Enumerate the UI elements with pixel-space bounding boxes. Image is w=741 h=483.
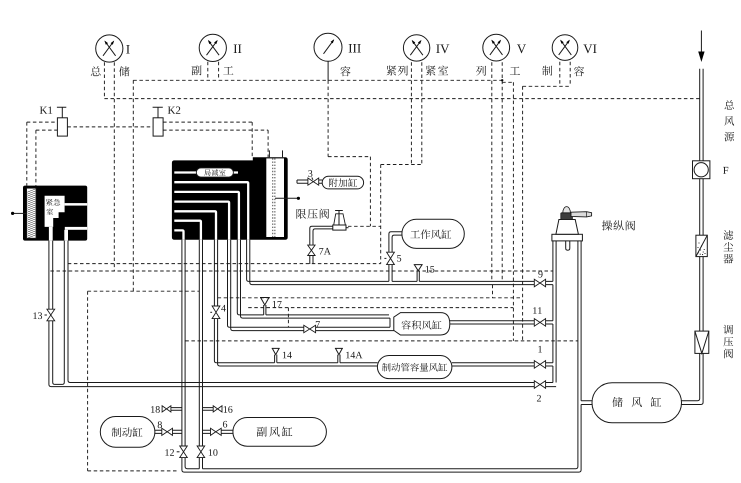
text 工作风缸 [410, 230, 420, 238]
supply arrow [698, 31, 704, 63]
gauge VI dashed drops [560, 62, 570, 87]
label 12 [165, 449, 174, 456]
top port stubs [269, 150, 282, 157]
pressure gauge III (single needle) [314, 33, 342, 61]
dashed bus y80 [133, 79, 502, 81]
emergency valve upper port slot [65, 203, 88, 206]
text 容积风缸 [401, 320, 410, 329]
text 紧急室 [46, 199, 60, 215]
capsule 制动缸 [100, 417, 155, 448]
valve 2 [534, 381, 545, 389]
channel L5 [174, 211, 216, 240]
pipe L3 (bottom line) [241, 240, 391, 318]
valve 12 [177, 446, 188, 458]
gauge IV dashed drops [411, 62, 421, 164]
gauge II labels 副/工 [192, 65, 234, 75]
label IV [436, 44, 449, 53]
dashed link y82 [502, 81, 513, 83]
pipe L4 (bottom line) [231, 240, 394, 331]
label III [349, 44, 361, 53]
dashed drop x513.4 [512, 82, 514, 341]
valve 7A [308, 245, 315, 250]
supply pipe seg2 [700, 179, 703, 236]
emergency valve vent with dot [11, 212, 27, 215]
pipe valve2 to control valve [546, 383, 557, 387]
pipe below 7A [310, 256, 313, 265]
valve 1 [534, 361, 545, 369]
valve 5 [384, 252, 394, 264]
pipe to valve 1 [452, 363, 534, 366]
gauge V labels 列/工 [476, 66, 520, 76]
capsule 局减室 [196, 168, 233, 177]
emergency valve hatched strip [27, 188, 36, 238]
label I [126, 45, 129, 54]
capsule 容积风缸 [394, 313, 450, 335]
valve 18 [162, 406, 182, 412]
emergency valve body [23, 186, 87, 241]
text 制动管容量风缸 [382, 363, 391, 372]
valve 16 [203, 406, 223, 412]
channel L6 [174, 221, 201, 240]
valve 7 [304, 325, 316, 332]
text 储风缸 [612, 397, 661, 407]
text 局减室 [204, 169, 210, 175]
pipe valve11 to control valve [546, 321, 553, 324]
pipe valve1 to control valve [546, 363, 553, 366]
capsule 附加缸 [322, 176, 363, 189]
control valve handle [571, 212, 592, 217]
valve 8 [155, 428, 182, 435]
dashed drop x522.6 [522, 86, 524, 341]
label 14A [346, 352, 362, 359]
dashed bus y271 [50, 270, 553, 272]
label 15 [426, 266, 435, 273]
text 制动缸 [112, 427, 122, 437]
pressure gauge IV [403, 35, 429, 61]
valve 6 [203, 428, 233, 435]
pressure gauge VI [552, 35, 578, 61]
emergency chamber 紧急室 [45, 196, 65, 227]
label 14 [283, 352, 292, 359]
dashed link y291 [88, 290, 200, 292]
label 18 [151, 406, 160, 413]
channel L7 [174, 230, 183, 239]
channel L4 [174, 202, 229, 240]
pipe valve3 to 附加缸 [319, 180, 323, 183]
dust collector 滤尘器 [696, 235, 707, 256]
channel L3 [174, 192, 239, 240]
dashed drop x133 [132, 80, 134, 291]
label K2 [168, 107, 180, 114]
gauge VI labels 制/容 [542, 66, 584, 77]
relay valve K1 [57, 107, 68, 136]
control valve dome [563, 207, 571, 213]
label 5 [397, 255, 401, 262]
text 调压阀 [723, 325, 733, 359]
label 3 [308, 170, 312, 177]
gauge V dashed drops [492, 62, 502, 281]
gauge I left dashed drop [103, 62, 105, 98]
capsule 副风缸 [233, 418, 327, 447]
text 附加缸 [329, 178, 338, 187]
valve 13 [45, 309, 56, 321]
pressure gauge I (dual needle) [96, 35, 123, 62]
label F [723, 167, 728, 174]
supply pipe to 储风缸 [682, 353, 704, 404]
junction dot [501, 79, 503, 81]
pipe L5 (bottom line) [218, 240, 378, 366]
bottom pipe outer U [182, 240, 581, 472]
dashed drop x288.4 [287, 308, 289, 327]
pipe L2 to valve 9 (bottom line) [250, 240, 535, 285]
right drop pipe L6 [199, 240, 202, 469]
pipe emergency right (top line of brake-pipe line) [68, 241, 534, 383]
text 操纵阀 [602, 220, 612, 230]
pipe L4 (top line) [228, 240, 391, 327]
control valve neck [556, 220, 579, 235]
dashed bus y297.8 [218, 297, 522, 299]
gauge I labels 总/储 [91, 66, 130, 76]
pipe valve9 to control valve [546, 281, 553, 284]
strip vent line with dot [275, 197, 300, 200]
label 16 [224, 406, 233, 413]
valve 3 [308, 178, 313, 185]
gauge I right dashed drop [113, 62, 115, 270]
valve 17 [260, 298, 270, 306]
capsule 制动管容量风缸 [377, 356, 452, 379]
supply pipe seg3 [700, 257, 703, 332]
label V [517, 44, 526, 53]
control valve left pipe [553, 241, 556, 383]
label 4 [221, 305, 226, 312]
label 11 [533, 307, 542, 314]
label 2 [537, 395, 541, 402]
dashed bus y263.6 [68, 263, 381, 265]
dashed link y226 [348, 225, 381, 227]
label 1 [538, 346, 542, 353]
emergency valve left channel [49, 227, 53, 241]
pipe L5 (top line) [214, 240, 377, 363]
label K1 [40, 107, 52, 114]
pipe 工作风缸 to valve 5 [389, 232, 403, 252]
channel L2 [174, 182, 248, 240]
emergency valve right channel [64, 230, 68, 241]
dashed drop x380.7 [380, 165, 382, 264]
pipe to valve 3 [297, 180, 308, 183]
strip dotted lines [273, 158, 275, 237]
text 总风源 [724, 100, 734, 141]
valve 10 [196, 446, 205, 458]
supply pipe seg1 [700, 69, 703, 161]
capsule 工作风缸 [402, 219, 464, 248]
valve 9 [534, 279, 545, 287]
relay valve K2 [153, 107, 164, 136]
channel L1 局减室 [174, 171, 238, 173]
text 限压阀 [296, 209, 306, 219]
dashed box right side [369, 157, 371, 227]
capsule 储风缸 [592, 383, 682, 423]
pipe L3 (top line) [237, 240, 389, 315]
gauge IV labels 紧列/紧室 [386, 65, 448, 75]
port bracket [389, 318, 391, 327]
label 6 [223, 421, 227, 428]
dashed box top of 附加缸 [328, 156, 370, 158]
gauge III label 容 [340, 66, 350, 76]
label 7A [319, 248, 330, 255]
label VI [583, 44, 596, 53]
valve 15 [414, 265, 423, 271]
pipe emergency to brake-pipe line (outer) [49, 241, 534, 387]
pipe U-join between emergency pipes [53, 241, 65, 385]
gauge III dashed drop [327, 80, 329, 156]
pressure regulator 调压阀 [695, 331, 709, 353]
emergency valve lower port slot [65, 227, 87, 230]
control valve pin [566, 241, 570, 250]
pressure limiting valve 限压阀 [333, 211, 349, 231]
dashed bus to main air line [104, 98, 699, 100]
K1-K2 dashed link [67, 126, 153, 128]
pipe control valve to 储风缸 [581, 401, 592, 405]
label 9 [538, 271, 542, 278]
pipe L2 to valve 9 (top line) [247, 240, 535, 282]
dashed boundary bottom edge [88, 470, 177, 472]
text 滤尘器 [723, 230, 733, 263]
valve 14 [272, 348, 280, 354]
control valve collar [552, 234, 583, 241]
pipe 限压阀 to valve 7A [310, 226, 333, 245]
control valve right pipe upper [580, 241, 582, 401]
valve 11 [534, 319, 545, 327]
text 副风缸 [257, 427, 267, 437]
dashed boundary left edge [87, 291, 89, 471]
dashed bus y307.6 [248, 307, 513, 309]
label 8 [158, 421, 162, 428]
gauge II dashed drops [208, 62, 219, 81]
dashed link y164.5 [381, 164, 422, 166]
valve 14A [335, 348, 343, 354]
left drop pipe inner to bottom line [185, 240, 199, 469]
label 10 [209, 449, 218, 456]
bottom pipe top line to control valve [203, 241, 578, 469]
K2 dashed right links [163, 122, 268, 158]
pressure gauge V [483, 34, 510, 61]
dashed link y86 [523, 85, 571, 87]
label 13 [33, 312, 42, 319]
valve 4 [210, 306, 220, 319]
dashed riser x492.5 [492, 285, 494, 298]
distributing valve white strip [266, 158, 284, 237]
distributing valve body [172, 157, 288, 240]
label 17 [273, 301, 282, 308]
pipe valve5 to main pipe [389, 265, 392, 282]
label II [234, 44, 242, 53]
K1 dashed left links [27, 122, 58, 186]
label 7 [316, 321, 320, 328]
pipe 容积风缸 to valve 11 [450, 321, 535, 324]
filter F [693, 161, 710, 179]
dashed bus y340.9 [185, 340, 578, 342]
control valve cap [561, 213, 573, 220]
gauge III stem [327, 61, 329, 80]
pressure gauge II [199, 34, 226, 61]
